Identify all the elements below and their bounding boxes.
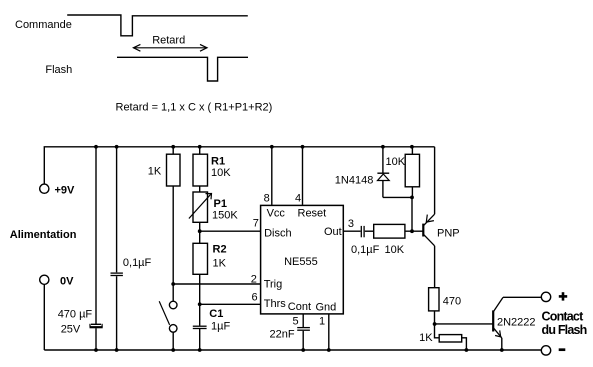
0V terminal — [40, 275, 49, 284]
svg-text:1µF: 1µF — [211, 320, 230, 332]
svg-text:1K: 1K — [419, 332, 433, 344]
wire 470uF branch — [95, 147, 97, 324]
svg-text:C1: C1 — [209, 308, 223, 320]
+9V terminal — [40, 184, 49, 193]
resistor 1K base — [439, 335, 466, 350]
diode 1N4148 — [377, 147, 389, 198]
wire base 2N2222 — [435, 323, 493, 325]
svg-text:Vcc: Vcc — [267, 207, 286, 219]
svg-text:Disch: Disch — [264, 228, 292, 240]
wire pin 5 — [302, 314, 304, 350]
wire resistor to base — [405, 230, 423, 232]
svg-text:Retard: Retard — [152, 35, 185, 47]
svg-text:470 µF: 470 µF — [58, 309, 93, 321]
op-amp U1 NE555 box — [261, 205, 344, 314]
svg-text:150K: 150K — [212, 210, 238, 222]
wire Thrs pin6 — [200, 303, 261, 305]
svg-text:10K: 10K — [385, 244, 405, 256]
wire diode bottom horizontal — [383, 196, 412, 198]
Commande waveform — [67, 15, 248, 36]
wire Trig pin2 — [173, 283, 260, 285]
svg-text:NE555: NE555 — [284, 256, 318, 268]
terminal plus — [541, 292, 550, 301]
svg-text:P1: P1 — [214, 198, 227, 210]
plus sign — [559, 292, 567, 300]
svg-text:Thrs: Thrs — [264, 298, 287, 310]
svg-text:22nF: 22nF — [270, 329, 295, 341]
wire Out pin3 — [343, 230, 361, 232]
switch — [159, 301, 177, 350]
capacitor 22nF — [297, 328, 310, 331]
svg-text:7: 7 — [253, 218, 259, 230]
capacitor C1 — [193, 326, 207, 350]
svg-text:470: 470 — [443, 296, 461, 308]
svg-text:Gnd: Gnd — [316, 302, 337, 314]
Flash waveform — [117, 57, 248, 81]
svg-text:Retard = 1,1 x C x ( R1+P1+R2): Retard = 1,1 x C x ( R1+P1+R2) — [116, 102, 273, 114]
svg-text:0,1µF: 0,1µF — [351, 244, 380, 256]
Retard arrow — [133, 44, 207, 51]
wire pin 8 — [271, 147, 273, 205]
svg-text:Out: Out — [324, 226, 342, 238]
svg-text:Commande: Commande — [15, 19, 72, 31]
resistor R2 — [193, 243, 208, 325]
svg-text:1: 1 — [319, 315, 325, 327]
svg-text:6: 6 — [252, 292, 258, 304]
wire 0V down — [43, 284, 45, 350]
capacitor 0,1uF — [111, 273, 123, 275]
wire cap to resistor — [365, 230, 374, 232]
capacitor C 470uF — [90, 324, 103, 327]
svg-text:2: 2 — [251, 274, 257, 286]
svg-text:Reset: Reset — [298, 207, 327, 219]
wire bottom rail — [44, 349, 541, 351]
resistor 470 — [429, 288, 439, 324]
svg-text:8: 8 — [264, 193, 270, 205]
svg-text:R2: R2 — [213, 244, 227, 256]
svg-text:2N2222: 2N2222 — [497, 316, 536, 328]
svg-text:3: 3 — [348, 218, 354, 230]
resistor 10K series — [374, 224, 405, 238]
svg-text:1K: 1K — [148, 165, 162, 177]
resistor 1K top left — [167, 147, 181, 301]
svg-text:0V: 0V — [60, 275, 74, 287]
svg-text:5: 5 — [293, 315, 299, 327]
wire Disch pin7 — [200, 230, 261, 232]
svg-text:4: 4 — [295, 193, 301, 205]
svg-text:Contact: Contact — [542, 310, 585, 324]
svg-text:R1: R1 — [211, 156, 225, 168]
minus sign — [559, 348, 566, 351]
svg-text:PNP: PNP — [437, 227, 460, 239]
svg-text:Trig: Trig — [264, 279, 283, 291]
wire pin 1 — [328, 314, 330, 350]
svg-text:Cont: Cont — [288, 301, 311, 313]
wire pin 4 — [302, 147, 304, 205]
svg-text:0,1µF: 0,1µF — [123, 257, 152, 269]
transistor Q1 PNP — [423, 147, 434, 288]
svg-text:1K: 1K — [213, 258, 227, 270]
resistor 10K pullup — [405, 147, 419, 198]
resistor R1 — [193, 147, 208, 186]
wire +9V rail — [44, 147, 434, 184]
terminal minus — [541, 346, 550, 355]
transistor Q2 2N2222 — [493, 297, 541, 350]
potentiometer P1 — [189, 186, 212, 243]
svg-text:10K: 10K — [386, 156, 406, 168]
svg-text:10K: 10K — [211, 167, 231, 179]
svg-text:+9V: +9V — [55, 185, 76, 197]
svg-text:Flash: Flash — [45, 64, 72, 76]
svg-text:1N4148: 1N4148 — [335, 175, 374, 187]
svg-text:Alimentation: Alimentation — [10, 229, 77, 241]
wire 0,1uF branch — [116, 147, 118, 272]
svg-text:25V: 25V — [61, 324, 81, 336]
wire feedback vertical — [411, 197, 413, 231]
svg-text:du Flash: du Flash — [542, 323, 587, 337]
wire junction down to 1K — [435, 324, 440, 338]
capacitor 0,1uF out — [361, 226, 364, 237]
